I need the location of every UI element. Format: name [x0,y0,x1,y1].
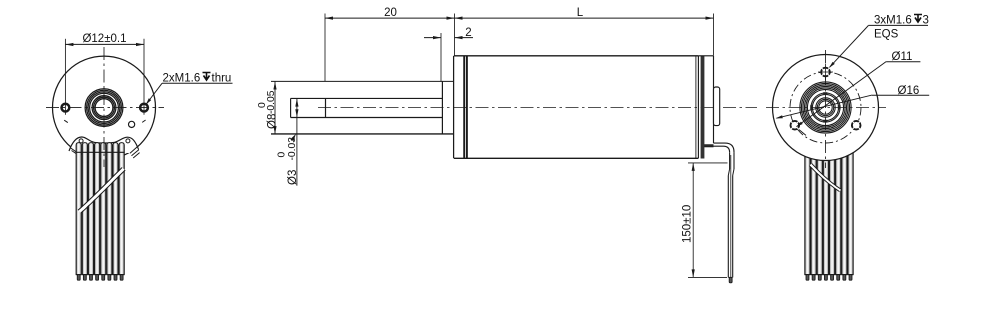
bracket right ear hole [126,139,130,143]
rear vertical centerline [825,50,827,168]
svg-text:L: L [577,7,584,19]
side view wire pin [729,277,732,282]
clamp bottom edge line [76,151,125,153]
svg-text:3xM1.6: 3xM1.6 [874,15,912,27]
bolt circle Ø11 [790,72,861,143]
wire exit clamp dark block [703,144,714,147]
svg-text:Ø3: Ø3 [287,170,299,185]
bracket right flank fold lines [130,147,140,159]
rear view outer circle (end cap) [773,55,879,161]
svg-text:Ø11: Ø11 [892,51,913,63]
gearbox front step face [441,81,443,134]
svg-text:Ø12±0.1: Ø12±0.1 [82,33,126,45]
svg-text:EQS: EQS [874,28,899,40]
front bearing boss concentric rings [85,89,123,127]
wire exit elbow [704,143,734,152]
svg-text:20: 20 [384,7,397,19]
wire clamp bracket (front view) [69,137,139,153]
rear cap outline [696,56,714,159]
bolt circle dash left [64,120,68,122]
rear wire end pins [805,275,853,281]
front horizontal centerline [46,107,164,109]
side view centerline [318,107,757,109]
label Ø16 [776,85,930,119]
svg-text:2: 2 [465,27,471,39]
dimension Ø8 -0.05 [257,81,279,134]
svg-text:Ø16: Ø16 [898,85,920,97]
svg-text:-0.05: -0.05 [266,90,277,114]
dimension 20 [325,7,455,81]
rear pilot boss [714,87,720,126]
svg-text:150±10: 150±10 [682,205,694,243]
index pin hole [129,121,135,127]
svg-text:Ø8: Ø8 [267,114,279,129]
bracket left flank fold lines [70,148,79,156]
left mounting hole M1.6 [62,104,70,112]
front crossing wire [78,168,125,213]
bracket left ear hole [79,139,83,143]
front view ribbon cable wires [76,143,124,275]
front housing seam (dark double line) [464,56,467,159]
side view wire bundle [728,152,734,277]
rear screw holes 3xM1.6 [791,64,861,130]
svg-text:thru: thru [212,72,232,84]
rear view ribbon cable wires [805,118,853,275]
dimension L [455,7,714,55]
output shaft outline [291,98,443,117]
svg-text:0: 0 [257,102,268,108]
rear horizontal centerline [766,107,886,109]
rear bearing concentric rings [800,82,851,133]
motor body outline [454,56,699,159]
front wire end pins [76,275,124,281]
front view outer circle (motor face) [53,56,156,159]
svg-text:-0.03: -0.03 [287,137,298,161]
svg-text:3: 3 [923,15,929,27]
gearbox Ø8 top line [271,80,454,82]
rear crossing wire [809,164,841,192]
front vertical centerline [103,47,105,167]
label 2xM1.6 depth thru [146,72,233,105]
dimension 150±10 [682,163,728,278]
right mounting hole M1.6 [140,104,148,112]
dimension 2 [424,27,473,81]
bearing key tabs [810,92,840,122]
bolt circle dash right [142,120,145,122]
gearbox Ø8 bottom line [271,133,454,135]
svg-text:2xM1.6: 2xM1.6 [163,72,201,84]
dimension Ø12±0.1 [65,33,144,115]
label 3xM1.6 depth 3 EQS [829,15,929,69]
rear housing dark band [701,56,705,159]
dimension Ø3 -0.03 [277,98,299,185]
label Ø11 [796,51,920,135]
svg-text:0: 0 [277,152,288,158]
